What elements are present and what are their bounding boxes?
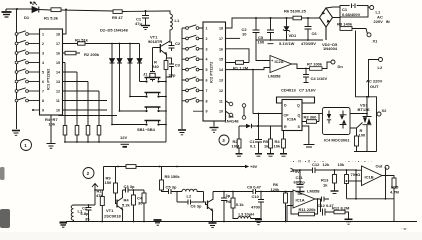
svg-text:9018TR: 9018TR: [148, 39, 162, 44]
svg-text:L2: L2: [378, 65, 383, 70]
svg-text:VD1: VD1: [289, 33, 298, 38]
svg-text:16: 16: [56, 52, 60, 56]
svg-text:CD4013: CD4013: [281, 88, 296, 93]
svg-text:L1: L1: [175, 18, 180, 23]
svg-text:10k: 10k: [49, 122, 56, 127]
svg-text:C7 1/16V: C7 1/16V: [299, 88, 316, 93]
svg-text:120k: 120k: [271, 187, 281, 192]
svg-text:IC1A: IC1A: [296, 198, 305, 203]
svg-text:Q: Q: [298, 114, 301, 118]
svg-text:L3 10μH: L3 10μH: [239, 212, 255, 217]
svg-text:R11 220k: R11 220k: [299, 207, 317, 212]
svg-text:5.1k: 5.1k: [236, 202, 245, 207]
svg-text:C5 3p: C5 3p: [166, 185, 177, 190]
svg-text:100: 100: [258, 40, 265, 45]
svg-text:6: 6: [42, 80, 44, 84]
svg-text:7: 7: [42, 90, 44, 94]
svg-text:0.68/400V: 0.68/400V: [342, 12, 361, 17]
svg-text:1: 1: [206, 27, 208, 31]
svg-text:C6 3p: C6 3p: [191, 204, 202, 209]
svg-text:12: 12: [56, 90, 60, 94]
svg-text:IN: IN: [386, 19, 390, 24]
svg-text:5: 5: [206, 68, 208, 72]
svg-text:35: 35: [85, 217, 90, 222]
svg-text:IC2 PT2272: IC2 PT2272: [209, 61, 214, 83]
svg-text:12V: 12V: [120, 135, 127, 140]
svg-text:R7 100k: R7 100k: [307, 62, 323, 67]
svg-text:150: 150: [105, 180, 112, 185]
svg-text:5: 5: [42, 71, 44, 75]
svg-text:Q: Q: [297, 104, 300, 108]
svg-text:1k: 1k: [264, 144, 269, 149]
svg-text:Dn: Dn: [338, 64, 344, 69]
svg-text:220V: 220V: [374, 19, 384, 24]
svg-text:IC3A: IC3A: [287, 117, 296, 122]
svg-text:1N4004: 1N4004: [323, 46, 338, 51]
svg-text:IC1 PT2262: IC1 PT2262: [46, 68, 51, 90]
svg-text:1k: 1k: [323, 183, 328, 188]
svg-text:6800p: 6800p: [294, 180, 306, 185]
svg-text:3: 3: [42, 52, 44, 56]
svg-text:L2: L2: [187, 194, 192, 199]
svg-text:10: 10: [219, 110, 223, 114]
svg-text:4700: 4700: [251, 205, 261, 210]
svg-text:3: 3: [206, 47, 208, 51]
svg-text:8: 8: [206, 99, 208, 103]
svg-text:R8: R8: [226, 199, 232, 204]
svg-text:J1: J1: [143, 72, 148, 77]
svg-text:470/25V: 470/25V: [301, 41, 316, 46]
svg-text:R5 150k: R5 150k: [165, 174, 181, 179]
svg-text:4: 4: [206, 58, 208, 62]
svg-text:100: 100: [359, 133, 366, 138]
svg-text:IC4 MOC3061: IC4 MOC3061: [324, 138, 350, 143]
svg-text:··я·: ··я·: [401, 226, 407, 231]
svg-text:C9 0.47: C9 0.47: [247, 185, 262, 190]
svg-text:0.1: 0.1: [250, 144, 256, 149]
svg-text:11: 11: [219, 99, 223, 103]
svg-text:8: 8: [42, 99, 44, 103]
svg-text:C10: C10: [252, 194, 260, 199]
svg-text:VT1: VT1: [106, 208, 114, 213]
svg-text:17: 17: [56, 42, 60, 46]
svg-text:12: 12: [219, 89, 223, 93]
svg-text:9: 9: [42, 109, 44, 113]
svg-text:7: 7: [206, 89, 208, 93]
svg-text:47μ: 47μ: [135, 21, 142, 26]
svg-text:·•·Я·•Л·•··•·: ·•·Я·•Л·•··•·: [290, 160, 328, 164]
svg-text:R3 360: R3 360: [304, 115, 318, 120]
svg-text:D1: D1: [24, 15, 30, 20]
svg-text:X1: X1: [373, 39, 379, 44]
svg-text:10M: 10M: [232, 144, 240, 149]
svg-text:30p: 30p: [169, 73, 176, 78]
svg-text:18: 18: [56, 33, 60, 37]
svg-text:2SC9018: 2SC9018: [104, 214, 121, 219]
svg-text:D2~D5 1N4148: D2~D5 1N4148: [100, 28, 128, 33]
svg-text:10k: 10k: [274, 144, 281, 149]
svg-text:R6 510/0.25: R6 510/0.25: [284, 9, 307, 14]
svg-text:30: 30: [138, 201, 143, 206]
svg-text:C2: C2: [175, 41, 181, 46]
svg-text:16: 16: [219, 47, 223, 51]
svg-text:14: 14: [219, 68, 223, 72]
svg-text:LM358: LM358: [268, 74, 281, 79]
svg-text:5.2k: 5.2k: [122, 203, 131, 208]
svg-text:C3 3p: C3 3p: [124, 184, 135, 189]
svg-text:4.7M: 4.7M: [390, 190, 400, 195]
svg-text:SB1~SB4: SB1~SB4: [137, 127, 156, 132]
svg-text:2: 2: [42, 42, 44, 46]
svg-text:R1 1.2M: R1 1.2M: [233, 66, 249, 71]
svg-text:R1 5.3k: R1 5.3k: [44, 16, 59, 21]
svg-text:5.1V/1W: 5.1V/1W: [279, 41, 295, 46]
svg-text:13: 13: [219, 79, 223, 83]
svg-text:R12 8.2M: R12 8.2M: [332, 206, 350, 211]
svg-text:18: 18: [219, 27, 223, 31]
svg-text:C4 1/16V: C4 1/16V: [311, 76, 328, 81]
svg-text:OUT: OUT: [370, 84, 379, 89]
svg-text:700Ω: 700Ω: [351, 172, 362, 177]
svg-text:C3: C3: [175, 63, 181, 68]
svg-text:14: 14: [56, 71, 60, 75]
svg-text:+9V: +9V: [250, 164, 258, 169]
svg-text:2: 2: [206, 37, 208, 41]
svg-text:10k: 10k: [338, 162, 345, 167]
svg-text:C6: C6: [312, 31, 318, 36]
svg-text:LM358: LM358: [307, 189, 320, 194]
svg-text:17: 17: [219, 37, 223, 41]
svg-text:6: 6: [206, 79, 208, 83]
svg-text:+9V: +9V: [293, 169, 301, 174]
svg-text:10: 10: [56, 109, 60, 113]
svg-text:R2 200k: R2 200k: [84, 52, 100, 57]
svg-text:13: 13: [56, 80, 60, 84]
svg-text:15: 15: [56, 61, 60, 65]
svg-text:BT136: BT136: [358, 107, 371, 112]
svg-text:X2: X2: [382, 108, 388, 113]
svg-text:D: D: [284, 104, 287, 108]
svg-text:47k: 47k: [96, 193, 103, 198]
svg-text:IC2A: IC2A: [275, 59, 284, 64]
svg-text:9: 9: [206, 110, 208, 114]
svg-text:11: 11: [56, 99, 60, 103]
svg-text:R5 47: R5 47: [112, 15, 123, 20]
svg-text:1N4148: 1N4148: [225, 119, 240, 124]
svg-text:AC 220V: AC 220V: [366, 79, 383, 84]
svg-text:R: R: [284, 125, 287, 129]
svg-text:3p: 3p: [226, 193, 231, 198]
svg-text:IC1B: IC1B: [365, 175, 374, 180]
svg-text:15: 15: [219, 58, 223, 62]
svg-text:240: 240: [152, 64, 159, 69]
svg-text:4: 4: [42, 61, 44, 65]
svg-text:10: 10: [242, 32, 247, 37]
svg-text:Out: Out: [376, 164, 384, 169]
svg-text:C2: C2: [82, 206, 88, 211]
svg-text:R8 140k: R8 140k: [337, 22, 353, 27]
svg-text:1: 1: [42, 33, 44, 37]
svg-text:R1 51k: R1 51k: [75, 38, 89, 43]
svg-text:6.8p: 6.8p: [81, 211, 90, 216]
svg-text:·•··•·•··: ·•··•·•··: [345, 160, 374, 164]
